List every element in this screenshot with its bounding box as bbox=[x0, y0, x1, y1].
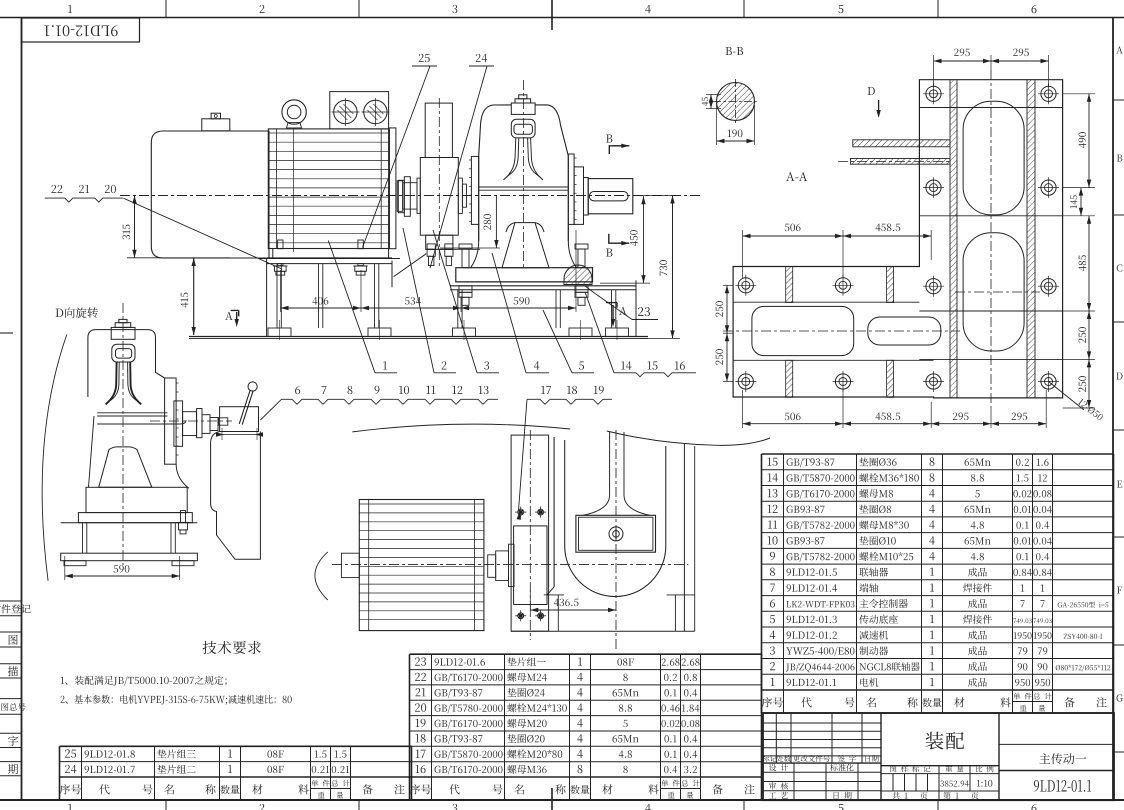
section arrow A left bbox=[231, 310, 239, 316]
D-view mid flange lines bbox=[97, 412, 167, 414]
housing bottom plate and sides bbox=[544, 594, 564, 596]
A-A left dimensions 250 250 bbox=[723, 284, 733, 286]
gearbox rail-section cavity ring bbox=[511, 119, 535, 138]
gearbox output shaft flange bbox=[574, 167, 583, 225]
D-view break arc bbox=[42, 335, 67, 581]
motor junction box on top bbox=[202, 119, 230, 131]
bracket plate coupling hub bbox=[514, 526, 547, 605]
D-view base and feet bbox=[61, 522, 198, 524]
gearbox rail stem and flare bbox=[504, 138, 516, 180]
gearbox body outline bbox=[479, 105, 569, 241]
D-view lower trapezoid bbox=[99, 447, 152, 487]
A-A horizontal arm slots bbox=[752, 306, 854, 355]
D-view rail stem and flare bbox=[106, 362, 117, 404]
gearbox mid flange lines bbox=[479, 186, 569, 188]
title block bbox=[763, 713, 1114, 800]
dimension 315 bbox=[134, 196, 136, 258]
motor lifting eyebolt bbox=[282, 100, 306, 124]
dimension 534 bbox=[361, 307, 461, 309]
bracket plate bolt cross marks bbox=[518, 509, 524, 515]
D-view centerline bbox=[122, 303, 124, 565]
top margin column numbers bbox=[68, 5, 72, 13]
gearbox bottom fillet feet bbox=[471, 241, 577, 268]
border frame bbox=[0, 17, 1124, 19]
left margin binding boxes bbox=[0, 600, 22, 602]
dimension 415 bbox=[193, 258, 195, 335]
dimension 450 bbox=[643, 196, 645, 283]
wavy break line top bbox=[352, 424, 570, 432]
leader row 17-19 bbox=[541, 386, 551, 394]
dimension 730 bbox=[672, 196, 674, 339]
D-view dimension 590 bbox=[64, 556, 66, 580]
D-view brake disc ribbed strip bbox=[165, 378, 177, 464]
technical requirements heading 技术要求 bbox=[203, 641, 261, 654]
gearbox housing bbox=[471, 156, 478, 224]
bottom view motor body with fins bbox=[359, 500, 484, 631]
D-view gearbox top cap three tiers bbox=[111, 327, 135, 339]
leader row 6-13 bbox=[295, 386, 300, 394]
brake column hubs bbox=[417, 178, 420, 213]
bottom view motor shaft and coupling bbox=[488, 555, 496, 578]
gearbox top cap three tiers bbox=[511, 103, 535, 114]
housing inner U with arc bottom bbox=[565, 440, 666, 597]
D-view bore line with rounded end bbox=[97, 420, 186, 424]
A-A horizontal arm centerline bbox=[723, 330, 960, 332]
section arrow B lower bbox=[609, 234, 617, 243]
brake column bottom flange and bolts bbox=[426, 235, 453, 249]
dimension 406 bbox=[281, 307, 362, 309]
leader labels 25 24 bbox=[419, 54, 430, 62]
bottom view motor left stub bbox=[341, 553, 359, 577]
B-B hatched shaft circle bbox=[717, 83, 755, 121]
gearbox output shaft cylinder and keyway bbox=[588, 179, 633, 214]
bottom view bracket plate bbox=[511, 435, 548, 631]
section arrow A right bbox=[606, 303, 617, 308]
ground line bbox=[189, 336, 648, 338]
A-A bolt holes bbox=[926, 86, 941, 101]
top-left inverted drawing-number box bbox=[22, 18, 140, 42]
leader lines 1-5 bbox=[383, 361, 387, 369]
controller lever with knob bbox=[239, 390, 250, 424]
A-A vertical arm inner walls with hatch bbox=[949, 80, 951, 398]
dimension 436.5 bbox=[529, 590, 531, 614]
label D向旋转 bbox=[56, 307, 98, 318]
B-B dimension 190 bbox=[716, 105, 718, 145]
A-A top-left dimensions 506 458.5 bbox=[742, 230, 744, 278]
right margin row dividers and letters bbox=[1113, 99, 1124, 101]
master controller box bbox=[220, 407, 259, 432]
A-A right dimensions 490 145 485 250 250 bbox=[1063, 93, 1095, 95]
BOM table right (items 15-1) bbox=[762, 453, 1114, 455]
pedestal hatched bolt boss bbox=[564, 265, 592, 285]
base frame under motor and gearbox bbox=[267, 257, 392, 259]
BOM table left (items 25-24) bbox=[60, 745, 412, 747]
D-view shaft steps to controller bbox=[174, 401, 183, 446]
B-B dimension 45 bbox=[706, 94, 721, 96]
gearbox centerline vertical bbox=[523, 80, 525, 270]
D-view gearbox body outline bbox=[88, 330, 165, 397]
motor shaft stubs bbox=[398, 180, 404, 212]
view direction arrow D bbox=[868, 87, 875, 95]
D-view pedestal right bolt bbox=[177, 521, 190, 523]
gearbox body lower side lines bbox=[478, 224, 480, 241]
base frame verticals bbox=[276, 264, 278, 328]
U-shaped housing outer walls bbox=[553, 437, 555, 587]
leader labels 22 21 20 bbox=[51, 185, 62, 193]
section label B-B bbox=[726, 47, 743, 55]
brake coupling column (brake wheel) bbox=[425, 103, 452, 157]
motor hold-down bolts M36 bbox=[278, 240, 283, 249]
pedestal bolts bbox=[462, 249, 469, 268]
bottom view centerline bbox=[332, 564, 688, 566]
main view horizontal centerline bbox=[120, 195, 700, 197]
A-A frame outline bbox=[733, 80, 1063, 398]
motor end cap right bbox=[389, 128, 396, 249]
title block revision header texts bbox=[762, 755, 777, 762]
A-A hatch wall strips horizontal arm bbox=[786, 267, 793, 303]
top margin column ticks bbox=[165, 0, 167, 18]
bottom margin column ticks bbox=[165, 800, 167, 810]
section label A-A bbox=[786, 172, 807, 181]
A-A left rail stubs with hatch bbox=[853, 140, 950, 147]
brake support bracket strut bbox=[391, 261, 393, 288]
A-A vertical arm slots bbox=[963, 101, 1024, 215]
gearbox lower trapezoid boss bbox=[502, 223, 549, 268]
bottom view break curve left bbox=[315, 552, 328, 600]
title block signature rows bbox=[793, 763, 795, 800]
note 1 bbox=[61, 676, 227, 686]
A-A top dimension 295+295 bbox=[933, 55, 935, 87]
A-A horizontal arm inner lines bbox=[733, 301, 919, 303]
BOM table middle (items 23-16) bbox=[410, 653, 762, 655]
housing inner hanging web bbox=[583, 432, 610, 515]
motor terminal box (rounded) bbox=[151, 131, 269, 258]
D-view rail ring bbox=[112, 344, 135, 362]
A-A flange divider lines bbox=[919, 107, 1062, 109]
title block middle: assembly name 装配 bbox=[881, 765, 999, 767]
gearbox pedestal (transmission base top) bbox=[456, 268, 593, 282]
base feet pads bbox=[268, 328, 291, 337]
bottom margin column numbers bbox=[68, 804, 72, 810]
A-A centerlines vertical arm bbox=[990, 70, 992, 408]
motor top bracket with two holes bbox=[330, 92, 389, 129]
dimension 590 main bbox=[461, 307, 576, 309]
dimension 280 bbox=[495, 196, 497, 249]
leader label 23 bbox=[638, 307, 650, 316]
A-A hole callout 12-Ø50 bbox=[1049, 382, 1085, 411]
title block right: part name and number bbox=[999, 743, 1113, 745]
motor body with cooling fins bbox=[268, 129, 389, 249]
controller small dim arrows bbox=[222, 434, 257, 436]
section arrow B upper bbox=[609, 146, 616, 154]
note 2 bbox=[61, 695, 292, 705]
controller support bracket bbox=[211, 432, 261, 560]
motor base feet and plate bbox=[273, 249, 389, 259]
A-A bottom dimensions 506 458.5 295 295 bbox=[742, 390, 744, 428]
title block stamp area bbox=[881, 773, 999, 775]
left margin row ticks bbox=[0, 332, 13, 334]
leader labels 14 15 16 bbox=[621, 361, 631, 369]
brake pad rectangle with center pin bbox=[576, 515, 656, 552]
